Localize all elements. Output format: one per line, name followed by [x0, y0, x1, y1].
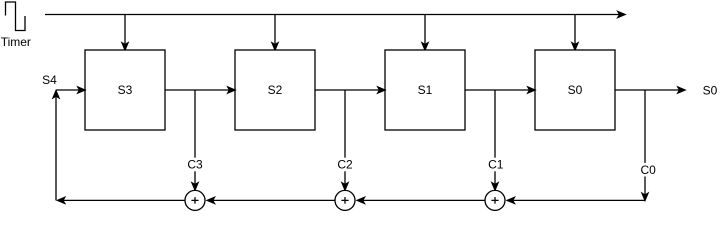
- wire clock drop to S2: [274, 15, 276, 45]
- svg-text:Timer: Timer: [1, 35, 31, 49]
- wire S3 to S2: [165, 89, 230, 91]
- timer waveform symbol: [6, 2, 26, 31]
- wire tap C1 down to xor: [494, 90, 496, 185]
- wire xor X3 output to feedback corner: [63, 199, 185, 201]
- xor X1: [485, 190, 505, 210]
- svg-text:S3: S3: [118, 83, 133, 97]
- register S3: [85, 50, 165, 130]
- arrowhead into xor X3 top: [192, 183, 198, 190]
- arrowhead into S2 top: [272, 43, 278, 50]
- arrowhead into xor X1 top: [492, 183, 498, 190]
- arrowhead into S2 left: [228, 87, 235, 93]
- wire xor X2 to xor X3: [212, 199, 335, 201]
- xor X3: [185, 190, 205, 210]
- arrowhead clock bus right: [618, 12, 625, 18]
- svg-text:S1: S1: [418, 83, 433, 97]
- svg-text:C0: C0: [641, 163, 657, 177]
- svg-text:S4: S4: [42, 73, 57, 87]
- svg-text:C2: C2: [337, 158, 353, 172]
- wire feedback C0 corner to xor X1: [512, 199, 645, 201]
- arrowhead into S3 top: [122, 43, 128, 50]
- register S1: [385, 50, 465, 130]
- wire clock drop to S1: [424, 15, 426, 45]
- wire tap C2 down to xor: [344, 90, 346, 185]
- arrowhead into xor X2 top: [342, 183, 348, 190]
- wire feedback rise to S4: [55, 96, 57, 200]
- label C2: [337, 158, 354, 172]
- arrowhead into S3 left: [78, 87, 85, 93]
- svg-text:S0: S0: [703, 84, 718, 98]
- wire S4 input into S3: [56, 89, 80, 91]
- arrowhead into S1 left: [378, 87, 385, 93]
- register S2: [235, 50, 315, 130]
- register S0: [535, 50, 615, 130]
- wire clock drop to S3: [124, 15, 126, 45]
- wire tap C3 down to xor: [194, 90, 196, 185]
- label C0: [640, 163, 657, 177]
- wire xor X1 to xor X2: [362, 199, 485, 201]
- wire clock bus: [45, 14, 620, 16]
- arrowhead feedback into S4 node: [53, 91, 59, 98]
- arrowhead into S1 top: [422, 43, 428, 50]
- arrowhead into S0 left: [528, 87, 535, 93]
- wire S0 output: [615, 89, 680, 91]
- arrowhead S0 output: [678, 87, 685, 93]
- arrowhead into xor X1 right: [507, 197, 514, 203]
- label C3: [187, 158, 204, 172]
- xor X2: [335, 190, 355, 210]
- wire S2 to S1: [315, 89, 380, 91]
- arrowhead C0 onto feedback bus: [642, 193, 648, 200]
- wire clock drop to S0: [574, 15, 576, 45]
- arrowhead into xor X2 right: [357, 197, 364, 203]
- wire tap C0 down to feedback bus: [644, 90, 646, 195]
- wire S1 to S0: [465, 89, 530, 91]
- svg-text:C3: C3: [187, 158, 203, 172]
- arrowhead feedback corner left: [58, 197, 65, 203]
- label C1: [487, 158, 503, 172]
- svg-text:C1: C1: [488, 158, 504, 172]
- svg-text:S0: S0: [568, 83, 583, 97]
- arrowhead into S0 top: [572, 43, 578, 50]
- svg-text:S2: S2: [268, 83, 283, 97]
- arrowhead into xor X3 right: [207, 197, 214, 203]
